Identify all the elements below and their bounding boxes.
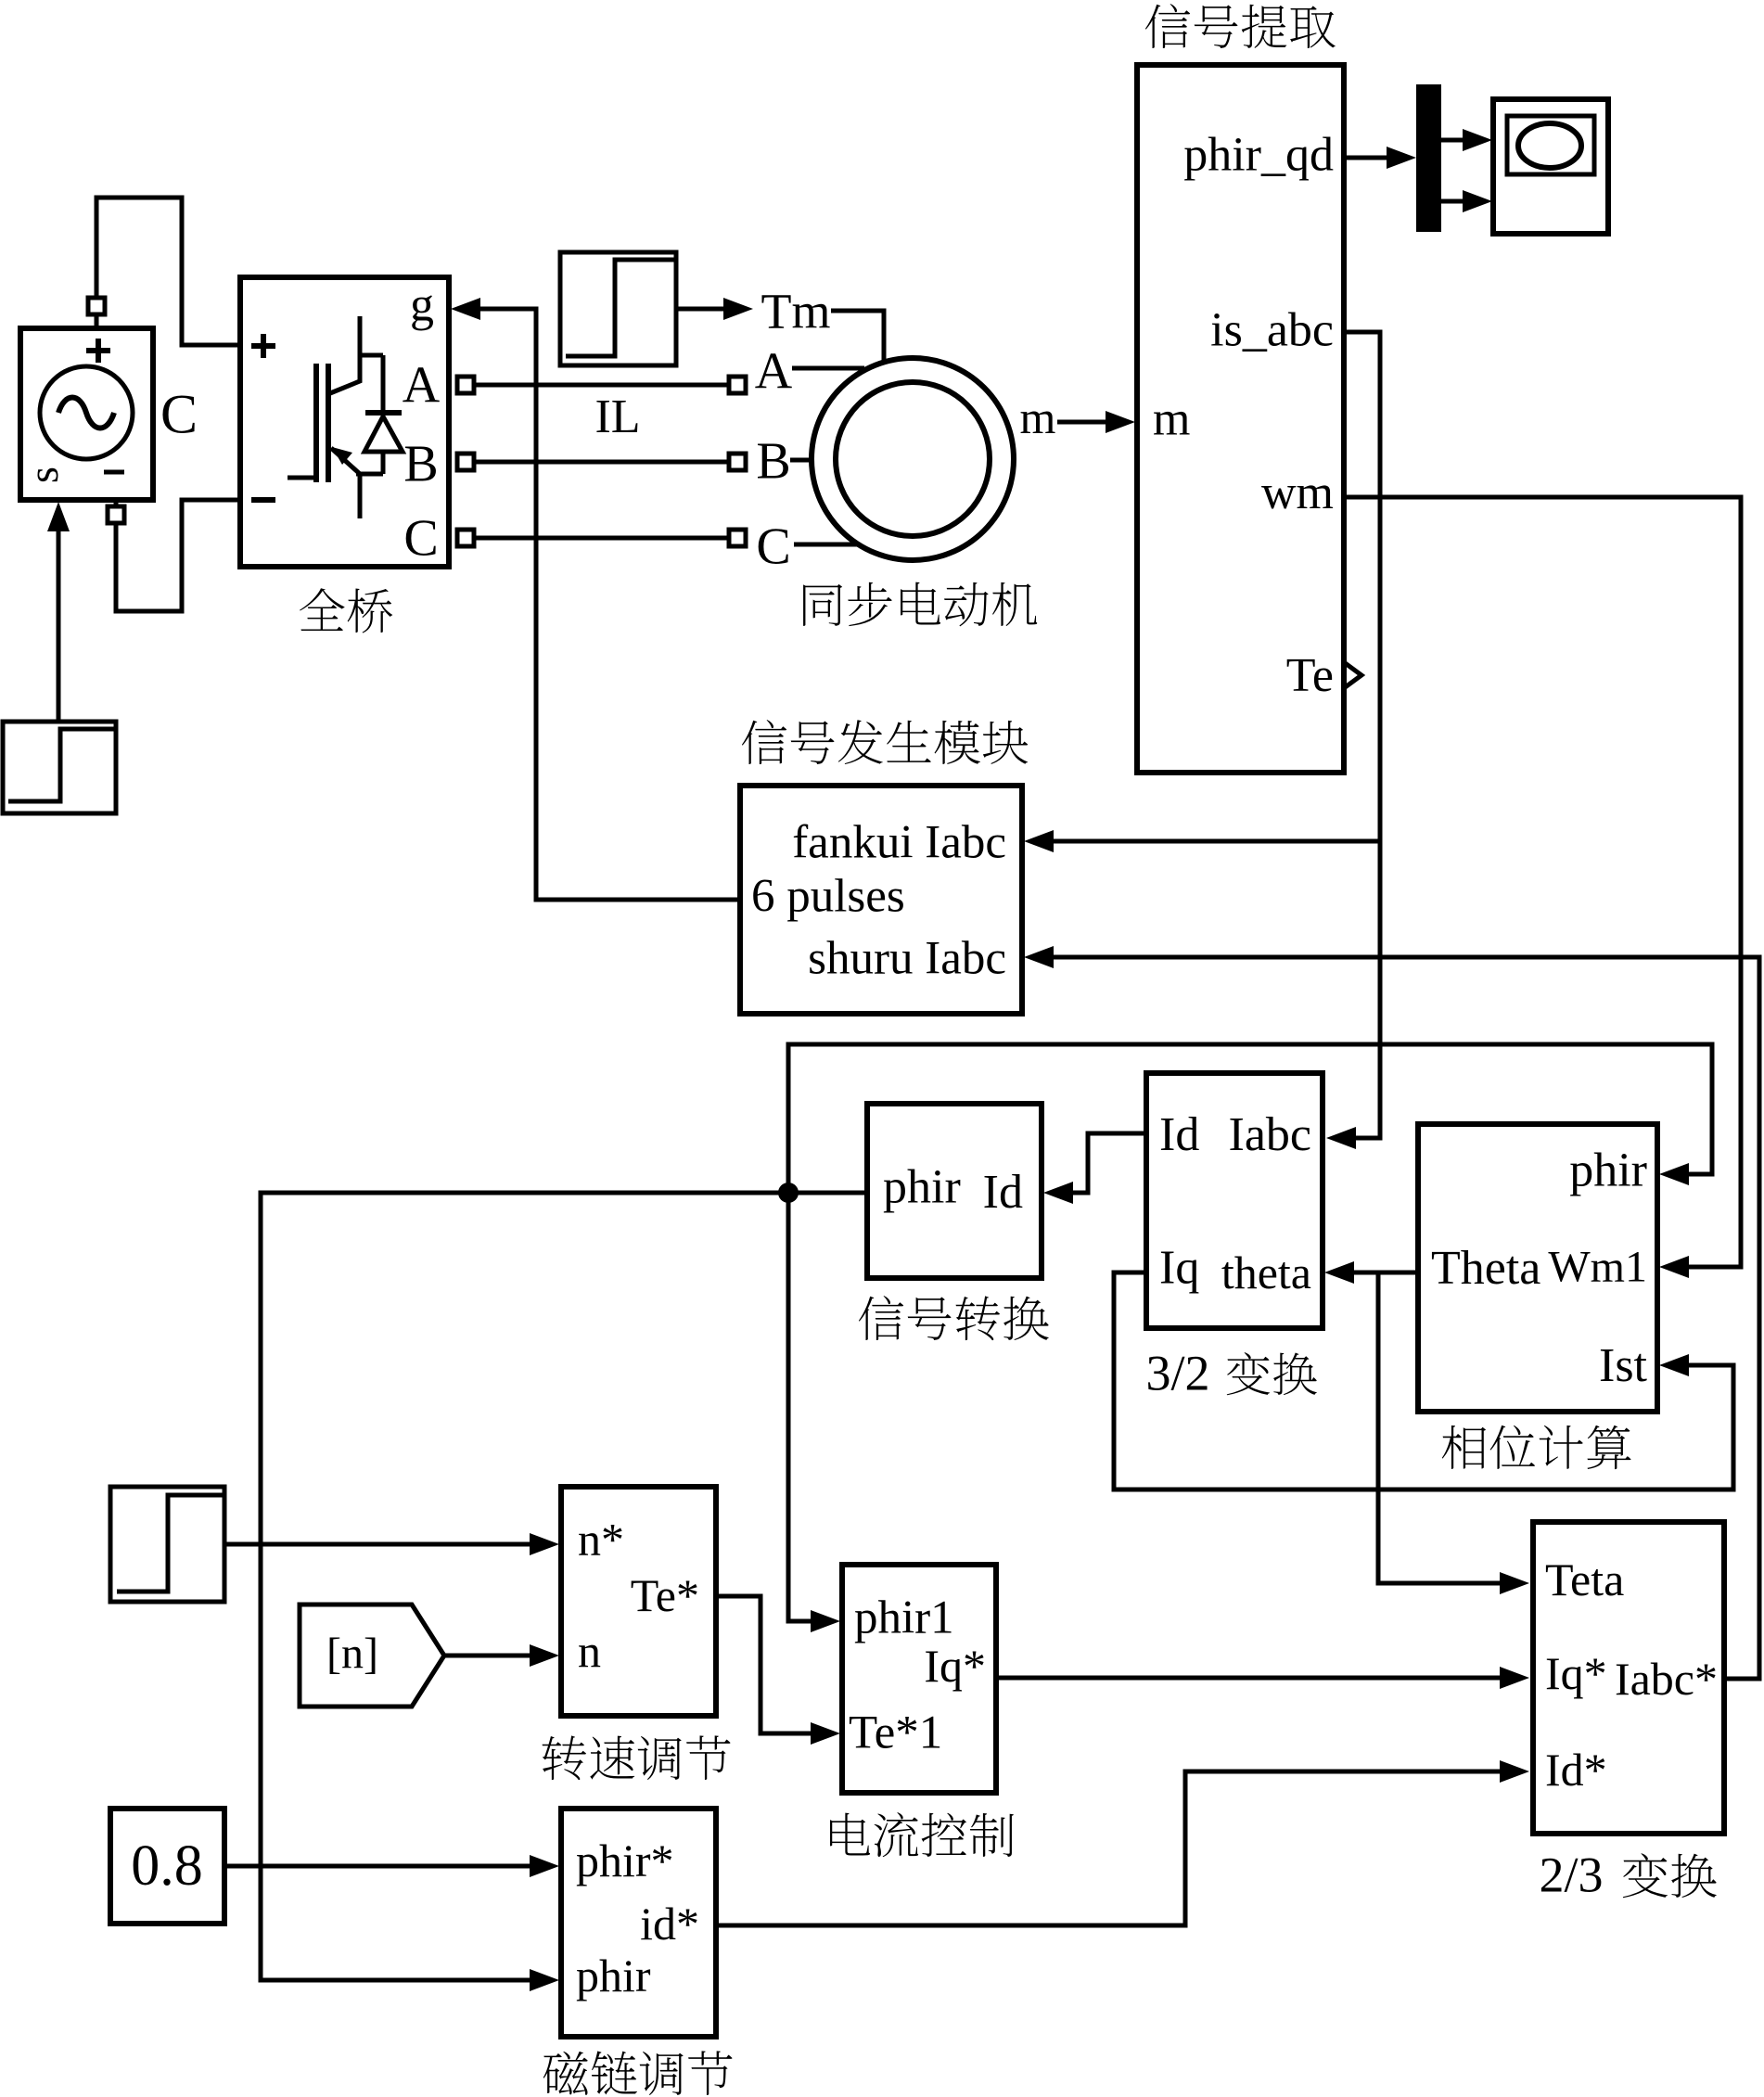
- 2/3 transform block: [1533, 1522, 1724, 1834]
- wire: Te* output to Te*1 input: [716, 1596, 812, 1733]
- diode: [360, 353, 383, 358]
- wire: bridge C to motor C: [475, 536, 729, 541]
- wire: phir feedback to flux regulator phir input: [261, 1193, 867, 1980]
- label 变换: [1623, 1853, 1717, 1898]
- signal extraction block: [1137, 65, 1344, 773]
- wire: step to n* input: [224, 1542, 531, 1547]
- constant 0.8 block: [110, 1809, 224, 1924]
- wire: id* output to 2/3 Id* input: [716, 1771, 1502, 1925]
- svg-text:6 pulses: 6 pulses: [751, 870, 905, 922]
- wire: branch to fankui Iabc input: [1052, 839, 1380, 844]
- svg-text:Te*1: Te*1: [849, 1707, 942, 1759]
- wire: [n] tag to n input: [444, 1654, 531, 1658]
- svg-text:3/2: 3/2: [1145, 1346, 1209, 1401]
- wire: IL step output to Tm: [676, 307, 725, 312]
- svg-text:phir: phir: [576, 1950, 651, 2001]
- svg-text:wm: wm: [1261, 467, 1334, 519]
- phase calculation block: [1418, 1124, 1657, 1412]
- wire: motor B stub: [790, 458, 813, 463]
- svg-text:phir1: phir1: [854, 1592, 954, 1643]
- port square: bridge A: [457, 377, 474, 393]
- port square: AC -: [108, 506, 124, 523]
- svg-text:Iabc: Iabc: [1229, 1108, 1311, 1161]
- label 信号提取: [1145, 4, 1336, 48]
- svg-text:Wm1: Wm1: [1548, 1243, 1647, 1292]
- svg-text:Iabc*: Iabc*: [1615, 1653, 1718, 1705]
- speed regulator block: [561, 1487, 716, 1716]
- svg-text:0.8: 0.8: [131, 1835, 203, 1898]
- IGBT: [288, 476, 314, 480]
- svg-text:Theta: Theta: [1431, 1242, 1540, 1295]
- wire: AC source - terminal to bridge - port: [116, 500, 240, 611]
- svg-text:A: A: [403, 357, 441, 415]
- wire: AC source + terminal to bridge + port: [96, 198, 240, 345]
- signal generator block: [740, 786, 1022, 1014]
- svg-text:shuru Iabc: shuru Iabc: [808, 932, 1006, 984]
- svg-text:A: A: [755, 343, 793, 401]
- wire: phir branch down to current-control phir1 input: [788, 1193, 812, 1621]
- wire: step source up into AC source: [57, 511, 61, 722]
- wire: bridge A to motor A: [475, 383, 729, 388]
- wire: motor A stub: [792, 366, 864, 371]
- svg-text:Iq*: Iq*: [1545, 1647, 1607, 1699]
- svg-text:Iq: Iq: [1159, 1242, 1199, 1295]
- svg-text:m: m: [1153, 392, 1190, 445]
- wire: motor C stub: [794, 543, 858, 547]
- svg-text:phir_qd: phir_qd: [1183, 129, 1334, 182]
- svg-text:n: n: [578, 1625, 601, 1677]
- wire: motor m output to extraction m input: [1057, 420, 1107, 425]
- port square: AC +: [88, 298, 105, 314]
- port square: bridge C: [457, 530, 474, 546]
- label 变换: [1227, 1352, 1317, 1395]
- svg-text:Te*: Te*: [631, 1569, 699, 1621]
- label 同步电动机: [803, 582, 1037, 627]
- wire: mux to scope top: [1441, 138, 1464, 143]
- svg-text:Teta: Teta: [1545, 1554, 1624, 1605]
- wire: 2/3 Iabc* output up to shuru Iabc input: [1052, 957, 1759, 1679]
- wire: phir branch up to phase-calc phir input: [788, 1044, 1712, 1193]
- wire: 6 pulses output to bridge gate g: [480, 309, 740, 900]
- svg-text:B: B: [403, 435, 438, 492]
- svg-text:fankui Iabc: fankui Iabc: [792, 817, 1006, 869]
- wire: phir_qd output to mux: [1344, 156, 1388, 160]
- wire: theta branch down to Teta input: [1378, 1272, 1502, 1583]
- svg-text:m: m: [1020, 391, 1056, 443]
- current control block: [842, 1565, 996, 1793]
- wire: wm output down to Wm1 input: [1344, 497, 1741, 1267]
- svg-text:Id: Id: [983, 1166, 1023, 1219]
- svg-text:phir*: phir*: [576, 1835, 674, 1886]
- svg-text:s: s: [19, 467, 67, 483]
- goto tag [n]: [300, 1605, 444, 1707]
- label 相位计算: [1442, 1426, 1631, 1469]
- svg-text:Tm: Tm: [761, 284, 831, 339]
- synchronous motor: [812, 358, 1014, 560]
- svg-text:Te: Te: [1286, 649, 1334, 702]
- wire: mux to scope bottom: [1441, 199, 1464, 204]
- svg-text:[n]: [n]: [326, 1629, 378, 1678]
- IL step source: [560, 252, 676, 365]
- svg-text:Iq*: Iq*: [924, 1640, 986, 1692]
- svg-text:id*: id*: [640, 1898, 699, 1950]
- wire: bridge B to motor B: [475, 460, 729, 465]
- label 电流控制: [830, 1812, 1014, 1857]
- node: phir branch junction: [778, 1183, 799, 1203]
- svg-text:phir: phir: [883, 1161, 961, 1214]
- label 信号转换: [859, 1296, 1049, 1340]
- wire: is_abc down to 3/2 Iabc input: [1344, 332, 1380, 1138]
- label 转速调节: [543, 1735, 731, 1780]
- svg-text:C: C: [756, 518, 790, 575]
- AC voltage source block: [20, 328, 153, 500]
- step source for n*: [110, 1487, 224, 1602]
- label 信号发生模块: [742, 720, 1028, 764]
- svg-text:g: g: [410, 279, 434, 332]
- wire: Theta output to theta input: [1352, 1271, 1418, 1275]
- motor port squares: [729, 377, 746, 393]
- svg-text:Id*: Id*: [1545, 1744, 1607, 1796]
- svg-text:Id: Id: [1159, 1108, 1199, 1161]
- flux regulator block: [561, 1809, 716, 2037]
- svg-text:C: C: [160, 384, 198, 445]
- svg-text:n*: n*: [578, 1513, 624, 1565]
- mux bar: [1416, 84, 1441, 232]
- svg-text:theta: theta: [1221, 1247, 1311, 1298]
- svg-text:Ist: Ist: [1599, 1339, 1648, 1392]
- scope block: [1493, 99, 1608, 234]
- label 磁链调节: [543, 2051, 733, 2095]
- svg-text:phir: phir: [1569, 1144, 1647, 1197]
- wire: 3/2 Iq output loop to Ist input: [1114, 1272, 1733, 1490]
- label 全桥: [300, 588, 392, 633]
- wire: 0.8 constant to phir* input: [224, 1864, 531, 1869]
- full bridge block: [240, 277, 449, 567]
- svg-text:B: B: [756, 432, 790, 490]
- wire: Iq* output to 2/3 Iq* input: [996, 1676, 1502, 1681]
- signal conversion block: [867, 1104, 1042, 1278]
- 3/2 transform block: [1146, 1073, 1323, 1328]
- wire: Tm stub into motor: [831, 311, 884, 362]
- port square: bridge B: [457, 454, 474, 470]
- svg-text:2/3: 2/3: [1539, 1848, 1603, 1903]
- Te output chevron: [1344, 662, 1361, 688]
- wire: 3/2 Id output to converter Id input: [1071, 1133, 1146, 1193]
- svg-text:IL: IL: [594, 390, 640, 443]
- bottom-left step source: [3, 722, 116, 813]
- svg-text:C: C: [403, 509, 438, 567]
- svg-text:is_abc: is_abc: [1210, 304, 1334, 357]
